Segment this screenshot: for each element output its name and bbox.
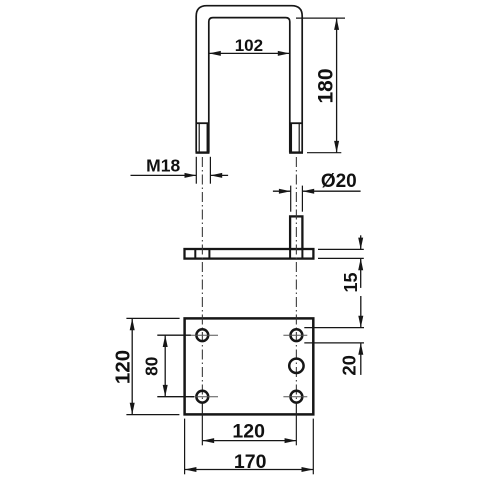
left centerline — [201, 157, 203, 404]
svg-text:102: 102 — [235, 36, 263, 55]
hole top-right — [291, 329, 303, 341]
plan view plate — [185, 318, 314, 414]
svg-text:20: 20 — [339, 355, 360, 376]
hole bottom-right — [291, 391, 303, 403]
dimension 20 hole diameter — [304, 296, 364, 376]
dimension 80 — [142, 335, 194, 397]
right centerline — [295, 157, 297, 404]
svg-text:170: 170 — [234, 451, 267, 473]
dimension 15 — [318, 235, 364, 292]
left centerline solid extension — [201, 404, 203, 445]
stud — [290, 216, 302, 258]
hole top-left cross — [190, 334, 218, 336]
svg-text:M18: M18 — [146, 156, 180, 176]
svg-text:Ø20: Ø20 — [321, 171, 357, 192]
dimension 120 vertical left — [111, 318, 179, 414]
dimension 102 — [209, 36, 290, 56]
hole bottom-right cross — [283, 396, 307, 398]
hole bottom-left cross — [190, 396, 218, 398]
svg-text:80: 80 — [142, 357, 162, 376]
dimension 120 bottom — [202, 421, 296, 444]
side view plate — [185, 249, 314, 259]
svg-text:15: 15 — [341, 272, 361, 292]
left leg thread — [196, 123, 210, 152]
hole top-right cross — [283, 334, 307, 336]
right centerline solid extension — [295, 404, 297, 445]
dimension M18 — [131, 156, 229, 184]
svg-text:120: 120 — [111, 350, 134, 384]
right leg thread — [289, 123, 303, 152]
svg-text:180: 180 — [315, 68, 338, 103]
hole bottom-left — [196, 391, 208, 403]
dimension 170 — [185, 419, 314, 475]
U-bolt inner outline — [209, 18, 290, 153]
dimension 180 — [296, 18, 345, 153]
dimension Ø20 — [273, 171, 361, 212]
hole middle large — [289, 359, 303, 373]
hole top-left — [196, 329, 208, 341]
svg-text:120: 120 — [232, 421, 265, 443]
U-bolt outer outline — [196, 6, 302, 153]
